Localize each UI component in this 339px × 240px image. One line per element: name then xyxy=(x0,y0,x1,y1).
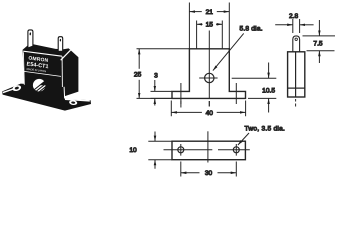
right flange slot ring xyxy=(69,100,78,106)
highlight front-right edge xyxy=(61,56,63,87)
ext lines 10.5 xyxy=(232,78,277,98)
center hole xyxy=(205,73,214,82)
ext lines 10 xyxy=(148,141,172,160)
svg-text:21: 21 xyxy=(206,9,214,16)
base front-right edge highlight xyxy=(63,87,66,98)
label bottom edge xyxy=(24,71,61,76)
svg-text:10: 10 xyxy=(129,147,137,154)
ext lines 40 xyxy=(171,101,245,117)
ext lines 2.8 xyxy=(293,19,300,33)
svg-text:10.5: 10.5 xyxy=(262,87,275,94)
left flange highlight band xyxy=(3,87,19,92)
dim 2.8 xyxy=(275,24,293,26)
svg-text:30: 30 xyxy=(205,170,213,177)
highlight left edge xyxy=(22,52,25,85)
ext lines 25 xyxy=(137,49,190,99)
svg-text:2.8: 2.8 xyxy=(289,13,298,20)
pin 2 (right, white blade) xyxy=(58,37,63,52)
logo xyxy=(33,79,47,92)
pin 1 (left, white blade) xyxy=(28,30,33,48)
dim 21 xyxy=(189,11,201,13)
hole centerlines xyxy=(164,149,250,151)
body silhouette xyxy=(23,44,79,97)
stubs below base xyxy=(181,101,209,108)
stub below xyxy=(295,99,297,107)
ext lines 15 xyxy=(197,21,223,49)
svg-text:40: 40 xyxy=(206,110,214,117)
leader Two, 3.5 dia xyxy=(238,133,249,145)
dim 40 xyxy=(171,111,202,113)
body outline xyxy=(288,52,305,97)
inner slot line xyxy=(295,52,297,97)
left flange hole ring xyxy=(12,84,22,92)
right flange top band xyxy=(65,99,90,101)
body centerline xyxy=(207,131,209,162)
highlight right diagonal xyxy=(61,50,71,60)
base plate silhouette xyxy=(2,84,91,111)
dim 7.5 xyxy=(318,20,320,36)
dim 3 xyxy=(154,80,156,91)
svg-text:5.8 dia.: 5.8 dia. xyxy=(240,26,263,33)
ext lines 7.5 xyxy=(303,36,336,51)
body+base T outline xyxy=(172,49,246,99)
leader 5.8 dia xyxy=(213,33,244,70)
svg-text:Two, 3.5 dia.: Two, 3.5 dia. xyxy=(245,126,286,133)
ext lines 3 xyxy=(151,91,173,98)
vertical centerline xyxy=(208,31,210,107)
pin xyxy=(293,36,300,52)
highlight front-top edge xyxy=(23,51,62,56)
svg-text:15: 15 xyxy=(206,22,214,29)
dim 25 xyxy=(138,49,140,69)
svg-text:3: 3 xyxy=(154,73,158,80)
dim 10 xyxy=(154,132,156,142)
label text xyxy=(26,55,50,73)
ext lines 30 xyxy=(181,162,237,177)
flange line xyxy=(288,87,305,89)
flange hole centerlines xyxy=(181,83,236,104)
dim 30 xyxy=(181,172,200,174)
ext lines 21 xyxy=(189,3,229,49)
dim 15 xyxy=(197,23,203,25)
hole horizontal centerline xyxy=(199,77,217,79)
svg-text:25: 25 xyxy=(134,72,142,79)
outline rect xyxy=(172,141,245,160)
holes xyxy=(178,147,184,153)
dim 10.5 xyxy=(268,63,270,79)
svg-text:7.5: 7.5 xyxy=(313,40,322,47)
